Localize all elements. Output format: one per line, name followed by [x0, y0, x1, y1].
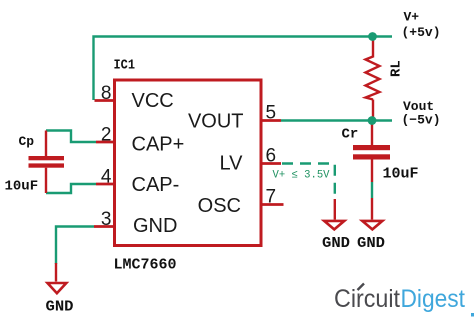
svg-text:3: 3 — [101, 209, 112, 230]
svg-text:10uF: 10uF — [5, 179, 39, 195]
svg-text:GND: GND — [357, 235, 385, 252]
svg-text:Digest: Digest — [401, 285, 466, 313]
svg-text:Cr: Cr — [342, 127, 359, 143]
svg-text:8: 8 — [101, 83, 112, 104]
svg-text:CAP+: CAP+ — [132, 134, 185, 156]
svg-text:OSC: OSC — [198, 195, 241, 217]
svg-text:GND: GND — [46, 299, 74, 316]
svg-text:IC1: IC1 — [114, 58, 136, 74]
svg-text:7: 7 — [266, 187, 277, 208]
svg-text:LV: LV — [220, 153, 244, 175]
svg-text:V+: V+ — [404, 10, 420, 25]
svg-text:VCC: VCC — [132, 90, 174, 112]
svg-text:VOUT: VOUT — [188, 111, 244, 133]
svg-text:RL: RL — [389, 60, 405, 77]
svg-text:4: 4 — [101, 167, 112, 188]
svg-text:CAP-: CAP- — [132, 174, 180, 196]
svg-text:(+5v): (+5v) — [402, 25, 441, 40]
svg-text:LMC7660: LMC7660 — [114, 257, 177, 274]
svg-text:6: 6 — [266, 146, 277, 167]
svg-text:2: 2 — [101, 125, 112, 146]
svg-text:(−5v): (−5v) — [402, 113, 441, 128]
svg-text:Circuit: Circuit — [334, 285, 400, 313]
svg-text:Cp: Cp — [19, 134, 35, 149]
svg-text:GND: GND — [133, 215, 177, 237]
svg-text:5: 5 — [266, 103, 277, 124]
svg-text:GND: GND — [322, 235, 350, 252]
svg-text:10uF: 10uF — [383, 166, 419, 183]
svg-text:V+ ≤ 3.5V: V+ ≤ 3.5V — [273, 170, 330, 182]
